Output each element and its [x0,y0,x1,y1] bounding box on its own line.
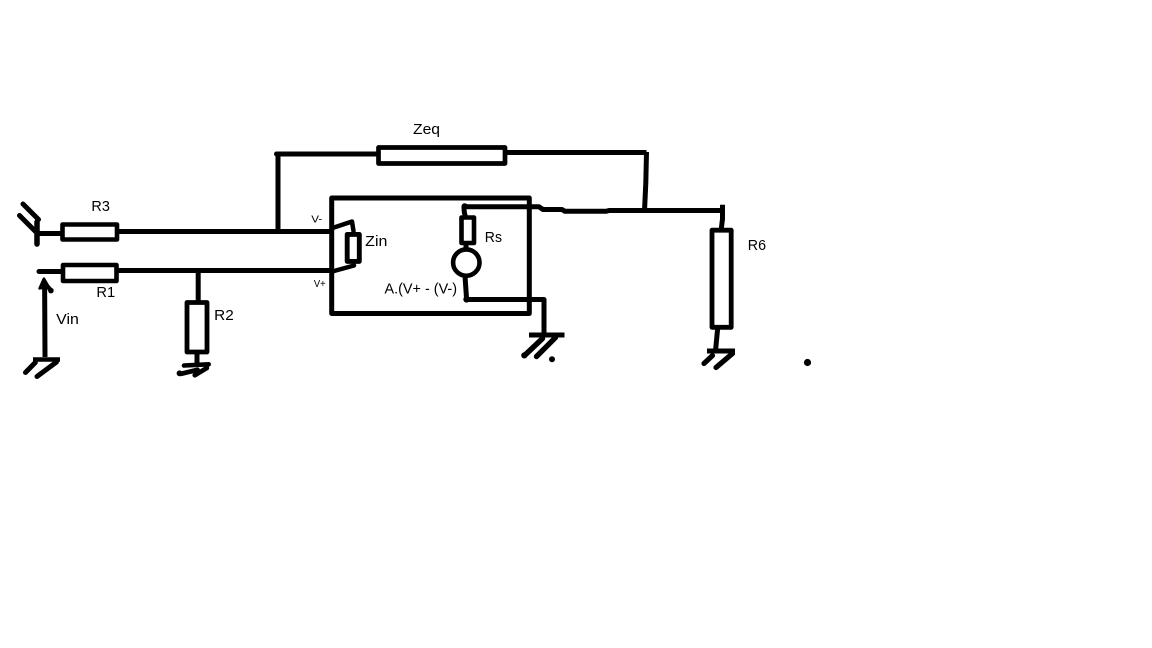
resistor R3 [63,225,118,240]
resistor R1 [63,265,117,281]
svg-text:Rs: Rs [485,230,502,246]
svg-text:A.(V+ - (V-): A.(V+ - (V-) [385,282,458,298]
svg-text:V-: V- [311,214,322,225]
dependent source stub [464,244,469,250]
wire R6 bottom stub [716,330,718,349]
wire Zeq right [507,150,647,155]
source Vin arrow [40,279,54,357]
wire Zeq left [277,152,378,157]
resistor Rs top wire [464,207,465,215]
svg-text:Zeq: Zeq [413,122,440,138]
svg-text:R2: R2 [214,308,234,324]
wire feedback horizontal [467,207,724,212]
resistor Rs [462,218,475,244]
wire junction up to Zeq [276,154,281,232]
resistor R2 [187,303,207,353]
svg-text:R3: R3 [91,199,110,215]
wire R2 bottom stub [195,353,200,364]
svg-text:R1: R1 [96,285,115,301]
svg-text:R6: R6 [748,238,766,254]
resistor Zeq [379,148,506,164]
ground (box output) [521,335,564,362]
svg-text:Vin: Vin [56,312,79,328]
op-amp model box U1 [332,198,530,314]
impedance Zin connectors [334,222,354,272]
wire source bottom [465,276,467,298]
resistor R6 [712,230,731,327]
wire input to R3 [35,231,61,236]
dependent source A(V+-V-) [453,249,479,275]
ground (Vin) [26,360,61,377]
svg-text:Zin: Zin [365,234,387,250]
wire R2 stub [196,268,201,301]
input terminal marker [20,204,39,244]
wire vertical down to feedback node [645,152,647,211]
ground (R6) [704,351,735,368]
wire down to R6 [721,205,722,230]
impedance Zin [347,234,359,261]
wire R1 net (V+ net) [119,268,333,273]
wire R3 to box (V- net) [119,229,331,234]
wire source to ground corner [466,300,544,334]
svg-text:V+: V+ [314,279,326,290]
ground (R2) [177,364,209,376]
node dot (isolated, right) [804,359,811,366]
wire R1 left stub [39,269,62,274]
